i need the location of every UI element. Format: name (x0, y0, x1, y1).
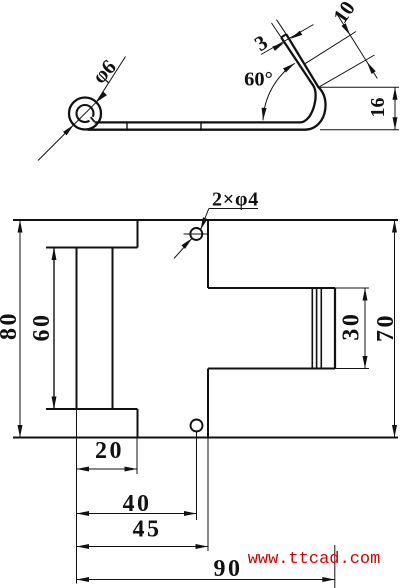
16-dim arrow bottom (393, 117, 398, 130)
step edge bottom at x=137.5 (137, 409, 139, 438)
fold line left (76, 248, 78, 410)
step edge extension for 20-dim (136, 438, 138, 475)
tick mark on sheet at x=127 (126, 121, 128, 130)
2xphi4 second arrow tail (174, 238, 192, 258)
svg-text:60°: 60° (244, 69, 273, 91)
svg-text:90: 90 (214, 556, 243, 582)
svg-text:60: 60 (29, 313, 55, 342)
30-dim line (364, 288, 366, 369)
right edge extension for 90-dim (334, 545, 336, 588)
notch bottom extension for 30-dim (335, 368, 369, 370)
10-dim extension from flange tip (304, 32, 356, 65)
curl inner end gap (89, 117, 95, 123)
notch top extension for 30-dim (335, 287, 369, 289)
left narrow section top edge (46, 247, 138, 249)
curl sheet end face (91, 117, 95, 121)
step edge top at x=137.5 (137, 220, 139, 248)
right edge of notch region (334, 288, 336, 369)
16-dim line (394, 87, 396, 129)
fold line left extension down (76, 409, 78, 584)
tick mark on sheet at x=201 (200, 121, 202, 130)
16-dim top extension line (318, 86, 399, 88)
sheet inner (top) surface with inner bend and flange inner line (95, 38, 316, 123)
svg-text:30: 30 (338, 312, 364, 341)
svg-text:10: 10 (328, 0, 360, 27)
2xphi4 leader arrow at circle (198, 217, 207, 230)
60 arc arrow bottom (261, 108, 267, 121)
fold line right (112, 248, 114, 410)
60 arc arrow top (283, 61, 296, 72)
70-dim line (394, 220, 396, 438)
top hole circle (190, 228, 202, 240)
phi6 arrow lower (63, 123, 75, 135)
svg-text:80: 80 (0, 311, 22, 340)
3-dim arrow lower-left (272, 40, 285, 51)
bottom hole extension line down (196, 432, 198, 521)
90-dim line (77, 579, 335, 581)
curl inner circle (77, 105, 94, 122)
3-dim extension line outer (277, 20, 287, 35)
svg-text:40: 40 (123, 491, 152, 517)
top hole centerline (184, 233, 209, 235)
80-dim line (19, 220, 21, 438)
3-dim extension line inner (272, 23, 282, 38)
svg-text:20: 20 (95, 438, 124, 464)
curl outer circle (69, 98, 101, 130)
phi6 arrow upper (95, 92, 107, 104)
svg-text:3: 3 (250, 30, 272, 56)
flange tip end face (281, 34, 286, 37)
bottom hole circle (191, 420, 203, 432)
sheet outer (bottom) surface with outer bend and flange outer line (88, 34, 326, 130)
column right edge bottom (207, 369, 209, 438)
60-dim line / left silhouette (53, 248, 55, 410)
svg-text:70: 70 (373, 313, 399, 342)
16-dim arrow top (393, 87, 398, 100)
left narrow section bottom edge (46, 408, 138, 410)
notch top edge (208, 287, 335, 289)
10-dim line (337, 14, 377, 79)
bend line 2 in notch (316, 288, 318, 369)
16-dim bottom extension line (320, 129, 399, 131)
plan top edge (13, 219, 398, 221)
plan bottom edge (13, 437, 398, 439)
svg-text:φ6: φ6 (87, 55, 121, 89)
2xphi4 leader diagonal (201, 209, 209, 230)
bend line 1 in notch (311, 288, 313, 369)
60 degree arc (263, 63, 295, 120)
45-dim line (77, 546, 209, 548)
svg-text:www.ttcad.com: www.ttcad.com (248, 550, 381, 569)
3-dim arrow upper-right (289, 31, 302, 42)
svg-text:2×φ4: 2×φ4 (212, 189, 259, 211)
10-dim arrow upper (341, 23, 352, 36)
column right edge top (207, 220, 209, 288)
10-dim arrow lower (365, 61, 376, 74)
20-dim line (77, 468, 138, 470)
3-dim line (261, 25, 314, 55)
bend line 3 in notch (320, 288, 322, 369)
10-dim extension from bend corner (319, 55, 375, 87)
2xphi4 second arrow below circle (181, 236, 193, 248)
svg-text:16: 16 (367, 98, 389, 118)
svg-text:45: 45 (133, 517, 162, 543)
phi6 leader line through curl (38, 102, 96, 160)
column right edge extension for 45-dim (207, 438, 209, 552)
notch bottom edge (208, 368, 335, 370)
2xphi4 leader underline (209, 208, 258, 210)
40-dim line (77, 513, 197, 515)
